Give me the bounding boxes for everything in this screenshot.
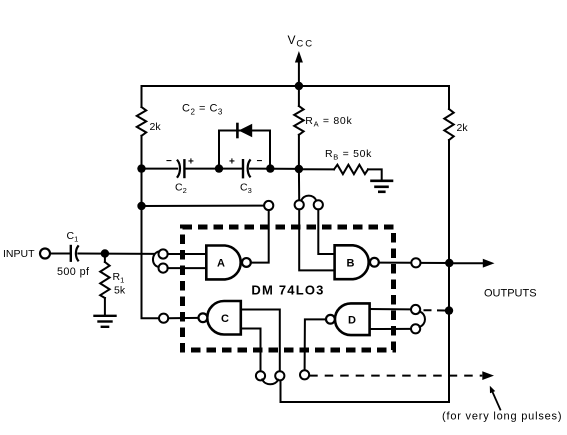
svg-text:RB = 50k: RB = 50k — [325, 148, 372, 162]
node gate C output pin — [159, 314, 168, 323]
node gate D input pin 2 — [411, 324, 420, 333]
wire R1 top lead — [104, 254, 106, 263]
wire C1 to gate A — [78, 253, 154, 255]
wire A pin2 to body — [168, 267, 207, 269]
wire Vcc stub — [298, 59, 300, 86]
wire cap line mid — [185, 168, 243, 170]
wire top rail Vcc — [142, 85, 450, 87]
wire left column lower — [142, 136, 160, 318]
wire RA to B inputs — [298, 169, 300, 200]
capacitor C2 — [178, 161, 180, 177]
wire RB lead — [299, 168, 334, 170]
wire D output down — [305, 319, 326, 370]
wire input to C1 — [50, 253, 70, 255]
node C3 right junction — [266, 164, 274, 172]
annotation pointer line — [493, 392, 501, 409]
wire gate D input crossover arc — [420, 312, 425, 327]
wire right column lower + bottom rail — [281, 140, 450, 402]
wire B pin1 to body — [299, 209, 334, 270]
node output junction — [445, 259, 453, 267]
wire A output feedback — [251, 210, 269, 263]
node gate B output pin — [411, 258, 420, 267]
node gate A input pin 2 — [159, 264, 168, 273]
svg-text:+: + — [188, 157, 194, 168]
long-pulse arrowhead — [482, 371, 494, 380]
svg-text:A: A — [217, 258, 225, 270]
node input junction — [101, 249, 109, 257]
node gate B input pin 1 — [295, 200, 304, 209]
svg-text:(for very long pulses): (for very long pulses) — [442, 411, 562, 423]
wire RA bottom — [298, 135, 300, 169]
diode CR1 — [237, 124, 252, 137]
node gate D input pin 1 — [411, 305, 420, 314]
svg-text:INPUT: INPUT — [3, 248, 35, 260]
wire dashed long-pulse line — [309, 375, 482, 377]
wire outputs arrow line — [449, 262, 484, 264]
wire B pin to output node — [421, 262, 450, 264]
svg-text:−: − — [166, 156, 172, 167]
node gate C output bubble — [199, 313, 208, 322]
node gate B input pin 2 — [314, 200, 323, 209]
node gate A input pin 1 — [159, 249, 168, 258]
wire right column upper — [448, 86, 450, 109]
wire RB to ground — [368, 169, 382, 179]
capacitor C3 — [242, 160, 244, 177]
svg-text:C: C — [221, 313, 229, 325]
wire D input upper — [370, 308, 411, 310]
svg-text:B: B — [347, 258, 355, 270]
svg-text:2k: 2k — [457, 122, 469, 134]
op-amp gate A (NAND) — [206, 246, 240, 280]
svg-text:5k: 5k — [114, 285, 126, 297]
node A feedback terminal — [264, 201, 273, 210]
wire R1 to ground — [104, 298, 106, 314]
outputs arrowhead — [483, 259, 495, 268]
wire cap line right — [250, 168, 299, 170]
wire RA top — [298, 86, 300, 106]
op-amp gate D (NAND mirrored) — [335, 303, 370, 335]
svg-text:DM 74LO3: DM 74LO3 — [251, 283, 324, 298]
svg-text:D: D — [348, 314, 356, 326]
wire C input upper — [241, 310, 280, 372]
wire D dashed link to output column — [424, 309, 447, 311]
wire gate C input crossover arc — [262, 379, 278, 384]
op-amp gate C (NAND mirrored) — [207, 301, 241, 335]
wire B output to pin — [379, 262, 412, 264]
node RA bottom junction — [295, 165, 303, 173]
node Vcc junction — [295, 82, 303, 90]
wire D input lower — [370, 328, 411, 330]
node left cap-line junction — [137, 164, 145, 172]
wire feedback line y206 — [142, 205, 265, 207]
wire C input lower — [241, 329, 261, 372]
node left feedback junction — [137, 202, 145, 210]
wire diode branch — [219, 131, 270, 169]
svg-text:500 pf: 500 pf — [57, 266, 90, 278]
input terminal — [40, 249, 50, 259]
node gate D output pin — [300, 370, 309, 379]
wire C bubble to pin — [168, 317, 198, 319]
wire cap line left — [142, 168, 178, 170]
node gate C input pin 2 — [275, 371, 284, 380]
svg-text:2k: 2k — [150, 121, 162, 133]
resistor 2k left — [137, 107, 146, 136]
wire gate B input crossover arc — [301, 196, 316, 201]
wire B pin2 to body — [318, 209, 334, 254]
node gate A output bubble — [242, 258, 251, 267]
wire gate A input crossover arc — [153, 251, 159, 267]
svg-text:−: − — [257, 156, 263, 167]
Vcc arrow — [295, 51, 303, 63]
wire A pin1 to body — [168, 253, 207, 255]
svg-text:C2 = C3: C2 = C3 — [182, 103, 223, 117]
svg-text:+: + — [229, 157, 235, 168]
resistor R1 — [100, 262, 109, 298]
capacitor C1 — [71, 246, 78, 261]
resistor 2k right — [444, 109, 453, 140]
node gate C input pin 1 — [256, 371, 265, 380]
IC package dashed box DM74L03 — [183, 227, 394, 350]
op-amp gate B (NAND) — [335, 245, 369, 279]
node gate D output bubble — [326, 315, 335, 324]
resistor RB — [334, 165, 368, 174]
svg-text:OUTPUTS: OUTPUTS — [484, 287, 537, 299]
wire left column upper — [141, 86, 143, 107]
ground RB — [372, 181, 393, 192]
svg-text:RA = 80k: RA = 80k — [305, 115, 352, 129]
node gate B output bubble — [370, 258, 379, 267]
node C2-C3 junction — [215, 164, 223, 172]
ground R1 — [95, 316, 116, 327]
node D dashed junction — [445, 306, 453, 314]
resistor RA — [294, 106, 303, 135]
